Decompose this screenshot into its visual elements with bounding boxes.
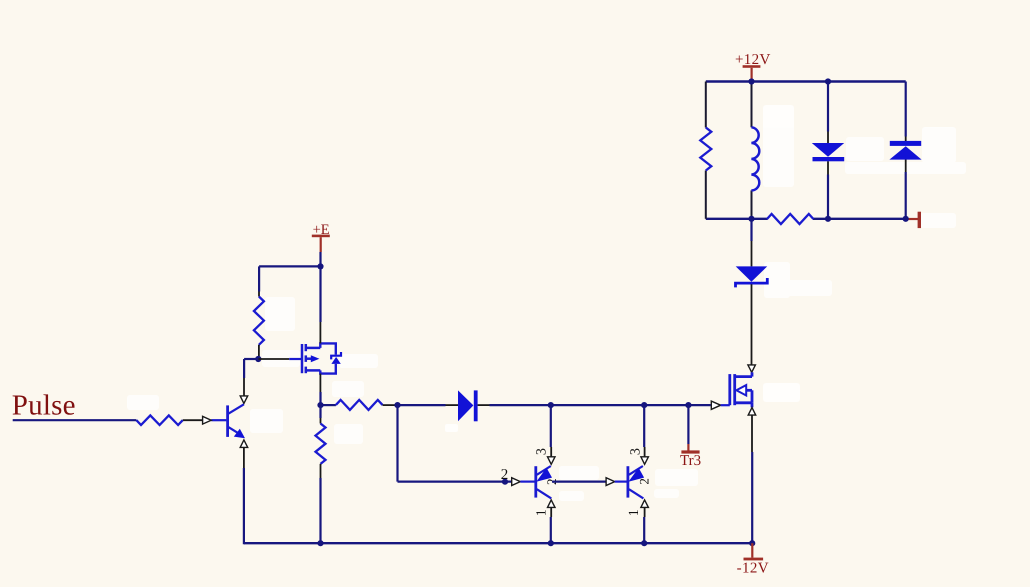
pin T2 pin1 <box>644 507 646 517</box>
wire down to R1 <box>258 266 260 291</box>
resistor R2 <box>136 415 182 425</box>
pin base T2 <box>615 481 628 483</box>
pin arrow base T2 (right) <box>606 478 615 486</box>
svg-text:-12V: -12V <box>737 560 769 576</box>
wire left branch <box>705 82 707 219</box>
transistor T2 <box>628 466 644 498</box>
pin arrow T2 pin1 (up) <box>641 500 649 508</box>
terminal Tr3 <box>680 405 701 469</box>
node R1/gate/collector <box>255 356 261 362</box>
wire R5 to bottom rail <box>319 478 321 543</box>
wire to T1 base <box>398 481 512 483</box>
pin emitter Q1 <box>243 447 245 468</box>
wire source to node <box>319 392 321 405</box>
node base T1 <box>502 479 508 485</box>
pin arrow collector (down) <box>240 396 248 404</box>
svg-text:1: 1 <box>534 509 549 516</box>
mosfet U1 bulk arrow (filled, points right) <box>311 355 320 362</box>
wire node to R4 <box>321 404 336 406</box>
svg-text:Tr3: Tr3 <box>680 453 701 469</box>
pin arrow gate (right) <box>711 401 720 409</box>
wire node to collector <box>244 358 258 360</box>
transistor Q1 <box>228 404 245 438</box>
wire +E rail left <box>259 265 320 267</box>
wire diode D1 branch <box>827 82 829 219</box>
pin R5 bottom <box>320 464 322 478</box>
wire +E to drain <box>319 266 321 322</box>
wire +E stem <box>319 252 321 266</box>
wire T2 pin3 to mid rail <box>643 405 645 447</box>
pin gate <box>721 404 730 406</box>
svg-text:2: 2 <box>637 478 652 485</box>
wire inductor stubs <box>751 82 753 219</box>
pin zener anode <box>751 241 753 266</box>
body diode loop U1 <box>320 343 336 373</box>
pin stubs D2 <box>905 137 907 173</box>
hidden designator highlight patches <box>127 105 966 501</box>
wire diode D2 branch <box>905 82 907 219</box>
pin arrow T1 pin1 (up) <box>548 500 556 508</box>
diode D1 <box>812 143 844 161</box>
svg-text:2: 2 <box>501 467 509 483</box>
inductor L1 <box>751 127 759 190</box>
wire top rail <box>706 80 906 82</box>
svg-text:1: 1 <box>627 509 642 516</box>
wire bottom rail <box>244 542 752 544</box>
wire source to -12V rail <box>751 452 753 543</box>
pin drain U1 <box>319 322 321 343</box>
node source/R4/R5 <box>317 402 323 408</box>
pin D4 anode <box>446 404 459 406</box>
pin arrow T2 pin3 (down) <box>641 457 649 465</box>
mosfet Tr3 body <box>730 372 752 407</box>
pin T1 pin3 <box>550 447 552 457</box>
pin D4 cathode <box>478 404 490 406</box>
pin R5 top <box>320 418 322 424</box>
svg-text:3: 3 <box>629 448 644 455</box>
resistor R5 <box>316 424 326 464</box>
pin T2 pin3 <box>644 447 646 457</box>
wire node to zener <box>750 219 752 241</box>
pin collector Q1 <box>243 378 245 396</box>
junction dots bottom rail <box>317 540 755 546</box>
wire emitter to bottom rail <box>243 468 245 544</box>
power -12V <box>737 543 769 576</box>
pin arrow base T1 (right) <box>512 478 521 486</box>
pin arrow drain (down) <box>748 365 756 372</box>
wire T1 to T2 <box>552 481 606 483</box>
resistor R1 <box>254 297 264 345</box>
wire D4 to gate arrow <box>490 404 711 406</box>
wire T1 pin1 to bottom rail <box>550 517 552 543</box>
wire T1 pin3 to mid rail <box>550 405 552 447</box>
wire to diode D4 <box>398 404 446 406</box>
pin base Q1 black part <box>183 419 203 421</box>
transistor T1 <box>536 466 552 498</box>
diode D4 <box>458 390 478 421</box>
body zener diode U1 <box>331 352 341 364</box>
terminal stub right <box>906 212 921 228</box>
pin T1 pin1 <box>550 507 552 517</box>
pin gate U1 (black part) <box>258 358 289 360</box>
node +E <box>317 263 323 269</box>
wire T2 pin1 to bottom rail <box>643 517 645 543</box>
wire bottom rail left part <box>706 218 768 220</box>
resistor R8 <box>767 214 813 224</box>
pin arrow emitter (up) <box>240 440 248 448</box>
pin base T1 <box>520 481 535 483</box>
junction dots mid rail <box>394 402 691 408</box>
power +12V <box>735 52 771 81</box>
pin R1 top <box>258 292 260 297</box>
power +E <box>312 222 330 252</box>
svg-text:Pulse: Pulse <box>12 390 76 422</box>
pin zener cathode / drain pin <box>751 284 753 365</box>
pin arrow base Q1 (right) <box>203 416 212 424</box>
pin R1 bottom <box>258 345 260 359</box>
pin stubs D1 <box>827 132 829 175</box>
wire Pulse input <box>13 419 137 421</box>
junction dots top block <box>748 78 908 222</box>
zener diode D3 <box>736 266 768 287</box>
pin arrow source (up) <box>748 408 756 416</box>
pin base Q1 <box>211 419 226 421</box>
pin source <box>751 415 753 452</box>
svg-text:3: 3 <box>535 448 550 455</box>
pin R4 right <box>383 404 398 406</box>
pin gate U1 (blue part) <box>289 358 301 360</box>
mosfet U1 with body diode <box>302 344 320 373</box>
pin arrow T1 pin3 (down) <box>548 457 556 465</box>
wire bottom rail right part <box>813 218 906 220</box>
wire node to R5 <box>319 405 321 418</box>
resistor R7 <box>700 128 711 171</box>
wire collector drop <box>243 359 245 378</box>
mosfet Tr3 bulk arrow (hollow, points left) <box>736 385 746 395</box>
resistor R4 <box>336 400 383 410</box>
diode D2 <box>889 141 921 160</box>
pin source U1 <box>319 374 321 392</box>
wire down from mid rail <box>396 405 398 482</box>
